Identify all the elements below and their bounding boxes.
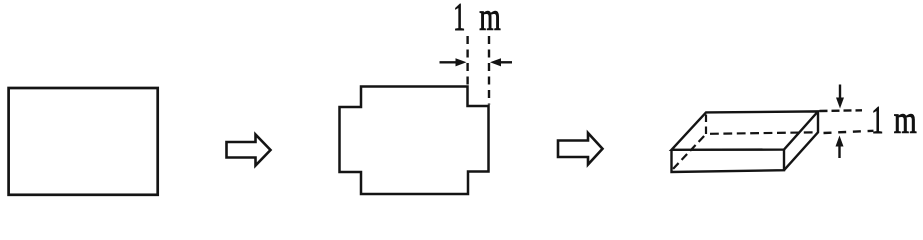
dimension arrow pointing up (right) — [838, 146, 840, 159]
dimension arrow pointing down (right) — [839, 85, 841, 100]
svg-text:m: m — [479, 0, 501, 39]
dashed extension line (right of top notch) — [488, 36, 490, 105]
3D slab: front face — [672, 150, 785, 172]
3D slab: top face — [672, 111, 819, 149]
hidden edge: back-left vertical (dashed) — [705, 115, 707, 135]
dashed extension line (left of top notch) — [466, 36, 468, 85]
block arrow 1 — [227, 135, 271, 166]
hidden edge: bottom-left (dashed) — [671, 136, 704, 171]
rectangle: original flat sheet — [9, 88, 158, 195]
hidden edge: back bottom (dashed) — [710, 132, 818, 134]
dashed dimension line (right, top) — [820, 109, 863, 112]
dashed dimension line (right, bottom) — [824, 131, 874, 133]
dimension arrow pointing left (top) — [499, 61, 512, 63]
svg-text:m: m — [894, 99, 917, 142]
cross-shaped sheet with corner squares removed — [340, 87, 489, 195]
block arrow 2 — [558, 133, 603, 165]
svg-text:1: 1 — [453, 0, 465, 39]
dimension arrow pointing right (top) — [440, 61, 458, 63]
3D slab: right face — [784, 111, 818, 170]
svg-text:1: 1 — [871, 99, 883, 142]
